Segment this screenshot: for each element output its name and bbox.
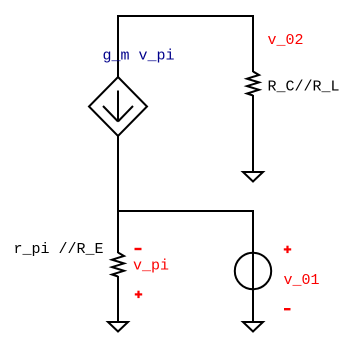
polarity plus (top of v_01)	[284, 246, 291, 253]
label r_pi //R_E	[14, 241, 104, 258]
polarity plus (bottom of v_pi)	[135, 291, 142, 298]
svg-text:R_C//R_L: R_C//R_L	[268, 79, 340, 96]
voltage label v_pi	[133, 258, 169, 275]
wire (horizontal from node to voltage source branch)	[117, 210, 254, 212]
voltage source v_01 (circle)	[235, 253, 271, 289]
svg-text:v_01: v_01	[284, 272, 320, 289]
source label v_01	[284, 272, 320, 289]
polarity minus (top of v_pi)	[135, 248, 142, 250]
wire (right vertical from top rail to resistor R_C//R_L)	[252, 15, 254, 72]
controlled current source G1 (diamond with down arrow, g_m*v_pi)	[89, 77, 147, 136]
ground (below v_01)	[243, 322, 263, 332]
node label v_02	[268, 32, 304, 49]
svg-text:r_pi //R_E: r_pi //R_E	[14, 241, 104, 258]
ground (below r_pi//R_E)	[108, 322, 128, 332]
svg-text:g_m v_pi: g_m v_pi	[103, 48, 175, 65]
wire (resistor R_C//R_L to ground)	[252, 95, 254, 172]
ground (below R_C//R_L)	[243, 172, 263, 182]
wire (vertical through voltage source v_01 to ground)	[252, 210, 254, 322]
resistor r_pi//R_E (zigzag)	[112, 253, 124, 277]
label R_C//R_L	[268, 79, 340, 96]
resistor R_C//R_L (zigzag)	[247, 72, 259, 96]
wire (current source bottom down through node to resistor r_pi//R_E)	[117, 136, 119, 253]
polarity minus (bottom of v_01)	[284, 308, 291, 310]
wire (top rail horizontal)	[117, 15, 254, 17]
wire (left vertical from current source to top rail)	[117, 15, 119, 78]
wire (resistor r_pi//R_E to ground)	[117, 276, 119, 322]
label g_m v_pi (controlled source value)	[103, 48, 175, 65]
svg-text:v_02: v_02	[268, 32, 304, 49]
svg-text:v_pi: v_pi	[133, 258, 169, 275]
